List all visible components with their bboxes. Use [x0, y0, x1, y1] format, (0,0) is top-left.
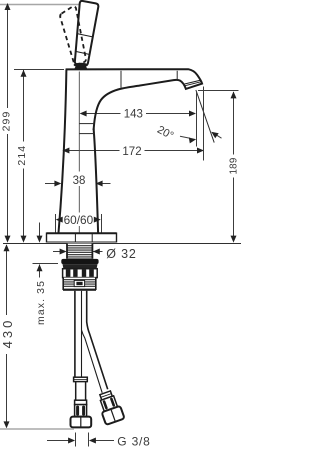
dimension 214 line — [14, 70, 64, 242]
mouth band lines — [185, 80, 202, 84]
base plate — [47, 233, 117, 243]
nut bevel — [63, 264, 98, 269]
handle dashed (alternate position) — [60, 6, 86, 64]
top reference gray line — [0, 4, 79, 6]
handle solid — [75, 1, 98, 66]
svg-text:430: 430 — [0, 318, 15, 349]
lower ribbed nut — [63, 278, 96, 291]
svg-text:143: 143 — [124, 109, 143, 121]
vertical extension from aerator — [196, 92, 198, 147]
dimension 143 — [86, 113, 189, 115]
seams on spout — [121, 71, 177, 88]
faucet: center line — [78, 72, 80, 233]
dimension 189 (right) — [198, 91, 239, 242]
svg-text:172: 172 — [122, 146, 141, 158]
floor reference gray line — [0, 428, 74, 430]
deck line — [3, 243, 241, 245]
dimension 299 line — [7, 4, 9, 241]
dimension 60/60 — [56, 214, 102, 233]
vertical extension from spout tip — [203, 87, 205, 161]
faucet body left edge — [59, 70, 67, 233]
svg-text:G 3/8: G 3/8 — [117, 434, 150, 448]
dimension G 3/8 — [47, 433, 114, 447]
spout top edge + tip — [66, 69, 203, 130]
dimension max. 35 — [33, 223, 59, 278]
castellated nut — [63, 269, 98, 278]
stream line 20deg — [196, 90, 214, 143]
dimension 38 — [45, 183, 111, 185]
left hose fitting — [71, 377, 92, 427]
right hose fitting (rotated) — [96, 390, 125, 425]
dimension Ø 32 — [53, 251, 103, 253]
svg-text:Ø 32: Ø 32 — [106, 247, 136, 261]
svg-text:38: 38 — [73, 175, 86, 187]
washer — [61, 259, 98, 264]
handle base ellipse — [74, 63, 88, 67]
svg-text:189: 189 — [229, 158, 240, 175]
svg-text:max. 35: max. 35 — [35, 280, 47, 325]
inner horizontal lines in body — [79, 124, 95, 134]
dimension 172 — [69, 150, 197, 152]
hoses — [75, 291, 108, 393]
svg-text:60/60: 60/60 — [64, 213, 94, 227]
svg-text:20°: 20° — [155, 124, 175, 142]
svg-text:214: 214 — [16, 145, 28, 166]
threaded shank — [67, 244, 92, 259]
dimension 430 — [6, 245, 8, 427]
svg-text:299: 299 — [1, 111, 13, 132]
faucet body right edge — [94, 129, 99, 233]
